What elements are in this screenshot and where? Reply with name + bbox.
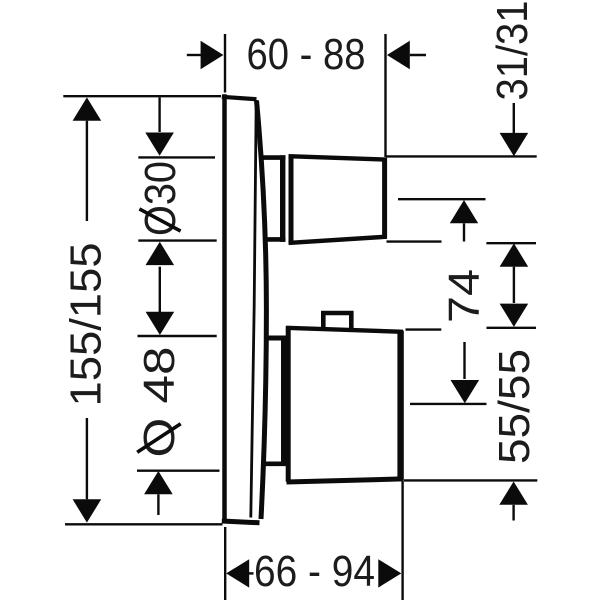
dim 60-88 right extension line — [384, 34, 386, 157]
dim 74 upper arrowhead — [450, 200, 478, 223]
dim 55/55 arrow tail — [512, 505, 514, 521]
double arrow middle tail right column — [513, 267, 515, 303]
svg-text:60 - 88: 60 - 88 — [247, 31, 366, 79]
dim O48 bottom arrow tail — [157, 494, 159, 515]
lower valve stem top — [265, 336, 287, 341]
dim 66-94 left arrowhead — [226, 559, 249, 587]
lower handle top edge — [286, 328, 403, 332]
dim 31/31 arrowhead — [500, 133, 529, 156]
wall plate left edge — [222, 94, 227, 523]
svg-text:O30: O30 — [137, 161, 185, 236]
dim 60-88 left arrow tail — [187, 54, 201, 56]
dim 74 lower arrow tail — [463, 342, 465, 379]
upper stem bottom extension line — [138, 239, 216, 241]
dim 155/155 bottom arrow tail — [86, 418, 88, 499]
bottom of upper handle extension line — [387, 240, 442, 242]
wall plate front face curve — [257, 101, 267, 520]
dim 60-88 left extension line — [224, 34, 226, 93]
diameter slash of O30 — [139, 209, 180, 231]
temperature safety tab — [323, 313, 351, 330]
svg-text:O 48: O 48 — [136, 347, 184, 458]
top of upper handle extension line — [386, 155, 536, 157]
wall plate front rim line — [251, 100, 256, 518]
dim 66-94 left extension line — [224, 527, 226, 600]
right segment at lower handle top — [487, 327, 537, 329]
svg-text:74: 74 — [441, 269, 489, 323]
diameter slash of O48 — [137, 424, 181, 452]
dim O30 top arrowhead — [145, 133, 174, 156]
lower handle axis extension line — [410, 403, 487, 405]
wall plate top edge — [222, 97, 257, 99]
double arrow middle tail left column — [159, 267, 161, 312]
dim 74 upper arrow tail — [463, 223, 465, 241]
upper handle top edge — [289, 156, 387, 159]
right segment at upper handle bottom — [486, 242, 536, 244]
dim 66-94 left arrow tail — [249, 572, 254, 574]
upper handle axis extension line — [398, 198, 486, 200]
left double arrow lower head — [146, 312, 175, 335]
upper valve stem front edge — [280, 155, 285, 242]
right double arrow upper head — [500, 243, 529, 266]
dim 155/155 bottom arrowhead — [73, 499, 102, 522]
bottom of lower handle extension line — [404, 479, 537, 481]
wall plate bottom edge — [222, 521, 260, 523]
dim 60-88 right arrow tail — [410, 54, 426, 56]
dim 55/55 arrowhead — [499, 482, 528, 505]
left double arrow upper head — [146, 242, 175, 265]
svg-text:155/155: 155/155 — [63, 243, 111, 407]
top of lower handle extension line — [406, 328, 442, 330]
lower valve stem front edge — [281, 336, 286, 466]
dim 74 lower arrowhead — [451, 380, 480, 403]
right double arrow lower head — [500, 304, 529, 327]
svg-text:31/31: 31/31 — [489, 1, 537, 101]
lower area extension line — [137, 470, 220, 472]
dim 155/155 top extension line — [63, 95, 221, 97]
dim O48 bottom arrowhead — [144, 471, 173, 494]
dim O30 top arrow tail — [158, 98, 160, 133]
lower stem top extension line — [138, 335, 217, 337]
dim 31/31 arrow tail — [513, 103, 515, 133]
lower handle bottom edge — [287, 479, 403, 482]
svg-text:66 - 94: 66 - 94 — [254, 548, 375, 596]
dim 60-88 left arrowhead — [201, 41, 224, 70]
upper valve stem bottom — [264, 237, 286, 242]
dim 66-94 right arrowhead — [378, 559, 401, 587]
svg-text:55/55: 55/55 — [491, 349, 539, 464]
dim 155/155 top arrow tail — [86, 121, 88, 221]
upper stem top extension line — [138, 156, 215, 158]
upper valve stem top — [261, 155, 286, 160]
upper handle bottom edge — [289, 237, 387, 243]
dim 155/155 bottom extension line — [65, 523, 223, 525]
upper handle back edge — [289, 155, 294, 244]
dim 60-88 right arrowhead — [387, 41, 410, 70]
dim 66-94 right extension line — [401, 481, 403, 600]
lower handle front face — [397, 331, 403, 481]
lower handle back edge — [286, 326, 291, 482]
upper handle front face — [382, 158, 387, 239]
dim 155/155 top arrowhead — [73, 97, 102, 120]
lower valve stem bottom — [265, 461, 287, 466]
